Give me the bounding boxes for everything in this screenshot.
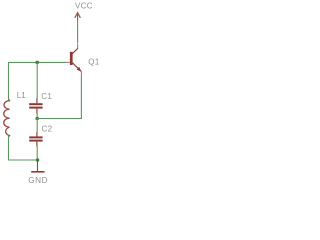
ground symbol <box>31 160 44 172</box>
transistor Q1 <box>65 44 81 78</box>
node junction top (base/C1) <box>35 61 39 65</box>
base pin <box>65 61 70 63</box>
wire left rail upper <box>8 62 10 100</box>
svg-text:VCC: VCC <box>75 1 93 10</box>
inductor L1 <box>4 100 10 136</box>
emitter pin <box>80 71 82 78</box>
collector pin <box>77 44 79 49</box>
capacitor C2 <box>29 132 42 147</box>
wire C1 to mid node <box>36 113 38 119</box>
base bar <box>70 52 73 65</box>
wire top node to C1 <box>36 62 38 99</box>
collector diagonal <box>72 48 78 53</box>
svg-text:GND: GND <box>28 176 48 185</box>
svg-text:Q1: Q1 <box>88 58 100 67</box>
svg-text:L1: L1 <box>17 91 26 100</box>
power flag VCC (up arrow) <box>75 13 81 21</box>
emitter arrowhead <box>77 67 82 72</box>
node junction bottom (GND) <box>36 158 40 162</box>
wire emitter to mid node <box>37 78 81 119</box>
wire C2 to bottom node <box>36 146 38 160</box>
wire bottom (rail to GND node) <box>8 159 38 161</box>
svg-text:C1: C1 <box>41 92 52 101</box>
capacitor C1 <box>29 99 42 114</box>
wire left rail lower <box>8 136 10 161</box>
wire mid node to C2 <box>36 119 38 133</box>
svg-text:C2: C2 <box>42 124 53 133</box>
wire VCC to Q1 collector <box>77 20 79 44</box>
wire base to left rail <box>9 61 66 63</box>
emitter diagonal <box>72 63 81 72</box>
node junction mid (C1/C2/emitter) <box>35 117 39 121</box>
